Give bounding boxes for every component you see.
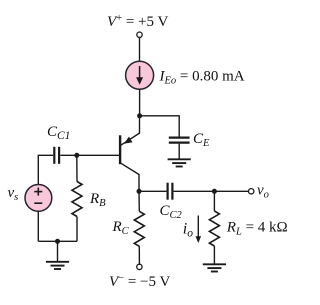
current io arrow <box>196 216 202 244</box>
wire node to RB <box>76 155 78 181</box>
capacitor CC1 <box>54 147 59 164</box>
node ground junction <box>55 239 60 244</box>
emitter arrow (pnp) <box>124 137 133 144</box>
emitter vertical wire <box>139 116 141 134</box>
wire CC2 to output terminal <box>174 190 249 192</box>
svg-text:RL = 4 kΩ: RL = 4 kΩ <box>226 220 288 238</box>
resistor RB <box>72 182 82 217</box>
emitter diagonal <box>121 133 140 145</box>
capacitor CE <box>169 138 190 143</box>
wire RL to ground <box>213 246 215 264</box>
wire RB to bottom rail <box>76 217 78 242</box>
wire node to ground <box>57 241 59 261</box>
wire node to RC <box>138 191 140 211</box>
wire CE to ground <box>178 144 180 159</box>
capacitor CC2 <box>168 183 173 200</box>
wire vs to CC1 <box>38 155 53 184</box>
wire V+ terminal to current source <box>139 37 141 61</box>
source vs <box>25 185 52 212</box>
wire current source to emitter node <box>139 89 141 116</box>
terminal V+ <box>137 32 142 37</box>
resistor RL <box>209 211 219 246</box>
resistor RC <box>134 211 144 246</box>
node collector junction <box>137 189 142 194</box>
collector diagonal <box>121 163 139 174</box>
ground (CE) <box>168 159 191 166</box>
transistor Q1 (pnp) <box>120 116 139 175</box>
terminal vo <box>249 189 254 194</box>
wire emitter node to CE branch <box>140 116 180 137</box>
wire RC to V- terminal <box>138 246 140 264</box>
wire node to CC2 <box>139 190 166 192</box>
ground (RL) <box>203 264 226 271</box>
wire node to RL <box>213 191 215 211</box>
wire collector to node <box>138 174 140 191</box>
node base junction <box>74 153 79 158</box>
base bar <box>119 135 121 164</box>
node emitter junction <box>137 113 142 118</box>
node output junction <box>212 189 217 194</box>
ground (vs/RB) <box>46 262 69 269</box>
wire vs to bottom rail <box>37 211 39 241</box>
wire bottom rail <box>38 240 77 242</box>
wire CC1 to base <box>60 154 119 156</box>
terminal V- <box>137 264 142 269</box>
current source IEo <box>126 61 154 89</box>
